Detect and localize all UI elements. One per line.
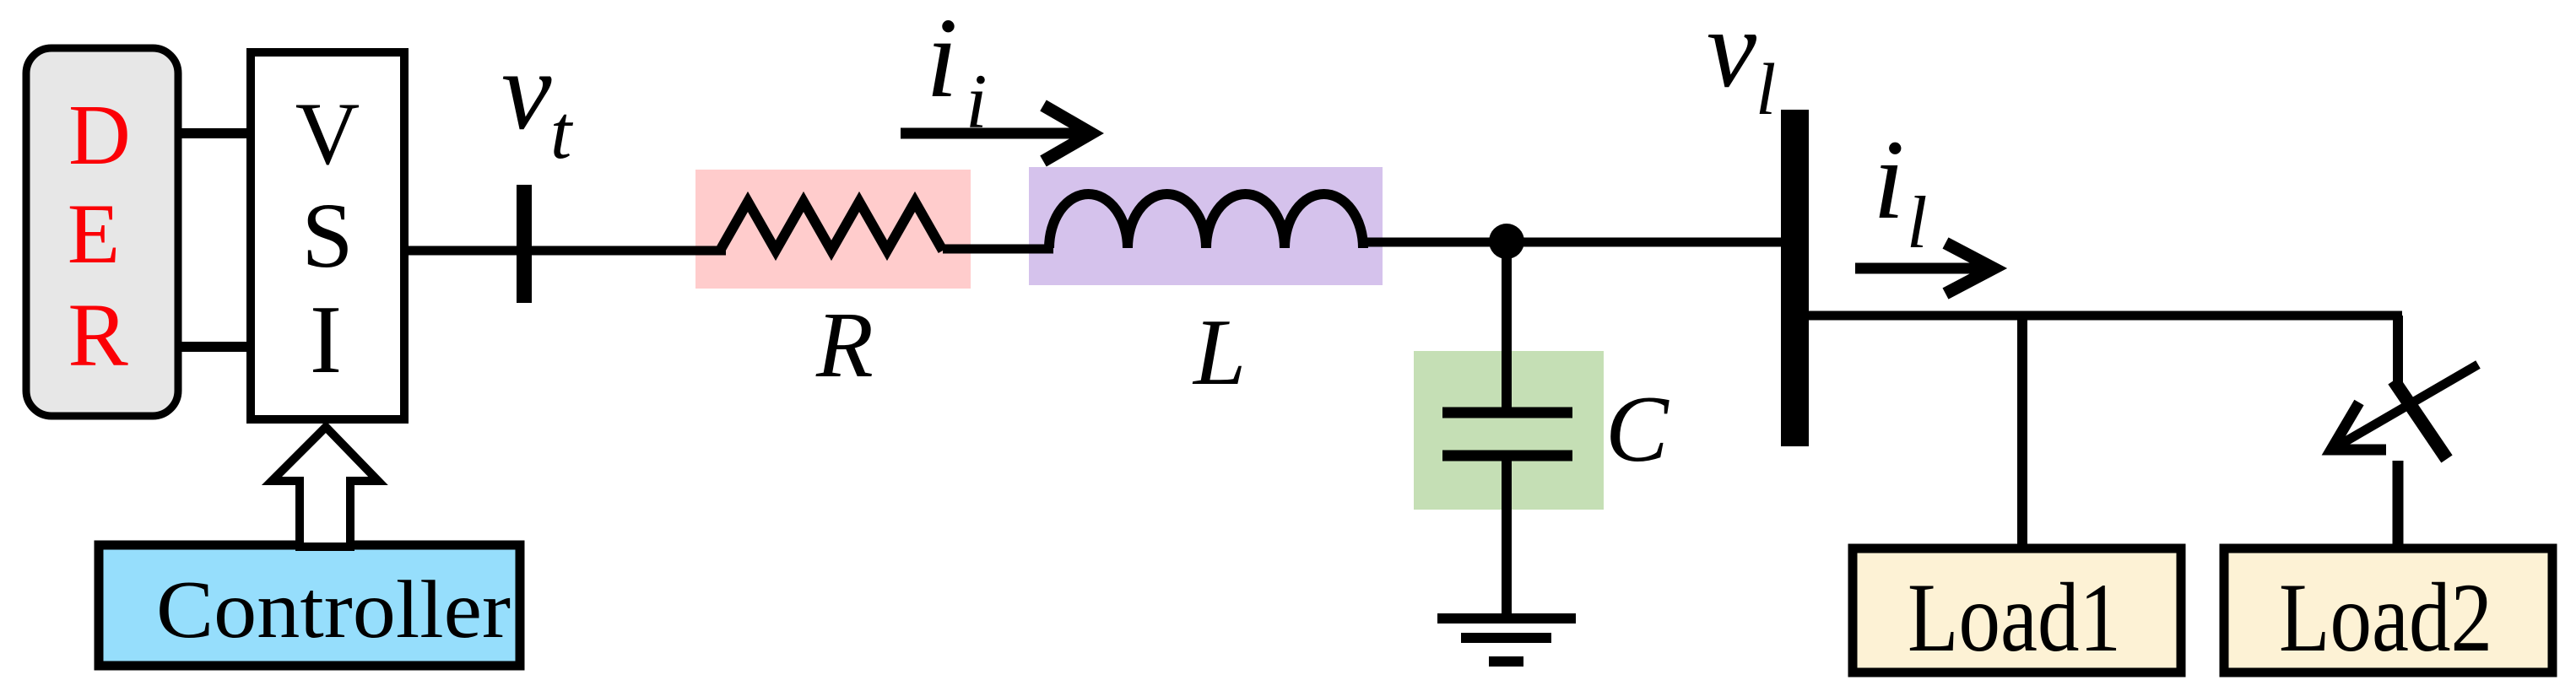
svg-text:l: l	[1756, 48, 1776, 130]
svg-text:D: D	[68, 88, 131, 183]
bus tick vt	[517, 185, 532, 303]
node junction	[1489, 224, 1524, 259]
svg-text:v: v	[1707, 0, 1757, 111]
label vt	[501, 28, 574, 175]
resistor R highlight	[695, 170, 971, 289]
svg-text:Controller: Controller	[156, 564, 511, 656]
svg-text:l: l	[1907, 182, 1927, 264]
svg-text:R: R	[815, 294, 874, 397]
wire branch corner down	[2393, 316, 2403, 382]
Load1 box	[1853, 548, 2181, 672]
current arrow ii	[901, 105, 1091, 161]
svg-text:Load2: Load2	[2279, 564, 2492, 672]
inductor L highlight	[1029, 167, 1383, 285]
wire DER-VSI top	[178, 128, 251, 138]
bus bar vl	[1781, 110, 1809, 446]
svg-text:L: L	[1192, 300, 1246, 405]
wire L-bus vl	[1359, 238, 1782, 247]
svg-text:E: E	[68, 186, 120, 282]
ground	[1437, 618, 1576, 661]
switch blade	[2394, 381, 2447, 459]
wire DER-VSI bottom	[178, 342, 251, 352]
svg-text:t: t	[550, 89, 574, 175]
svg-text:C: C	[1605, 377, 1670, 482]
svg-text:I: I	[310, 286, 342, 393]
VSI box	[251, 52, 404, 419]
inductor L	[1049, 194, 1363, 248]
svg-text:v: v	[501, 28, 552, 153]
controller box	[99, 545, 520, 666]
label ii	[926, 0, 988, 144]
svg-text:i: i	[966, 58, 988, 144]
wire junction-capacitor	[1502, 241, 1512, 408]
capacitor C highlight	[1414, 351, 1604, 510]
label vl	[1707, 0, 1776, 130]
switch arrow	[2331, 364, 2478, 450]
control signal block arrow	[272, 427, 378, 547]
capacitor C	[1442, 413, 1572, 456]
svg-text:R: R	[68, 286, 128, 386]
svg-text:V: V	[295, 84, 360, 183]
resistor R	[720, 202, 943, 251]
label il	[1873, 117, 1927, 264]
svg-text:S: S	[301, 184, 353, 287]
svg-text:i: i	[1873, 117, 1905, 243]
wire capacitor-ground	[1502, 461, 1512, 616]
Load2 box	[2224, 548, 2552, 672]
wire VSI output	[409, 246, 726, 256]
svg-text:Load1: Load1	[1908, 564, 2121, 672]
DER box	[26, 48, 178, 416]
wire switch-Load2 stub	[2393, 461, 2404, 547]
current arrow il	[1855, 243, 1994, 294]
svg-text:i: i	[926, 0, 958, 121]
wire load branch	[1809, 311, 2402, 321]
wire Load1 drop	[2017, 316, 2027, 547]
wire R-L	[943, 245, 1053, 254]
